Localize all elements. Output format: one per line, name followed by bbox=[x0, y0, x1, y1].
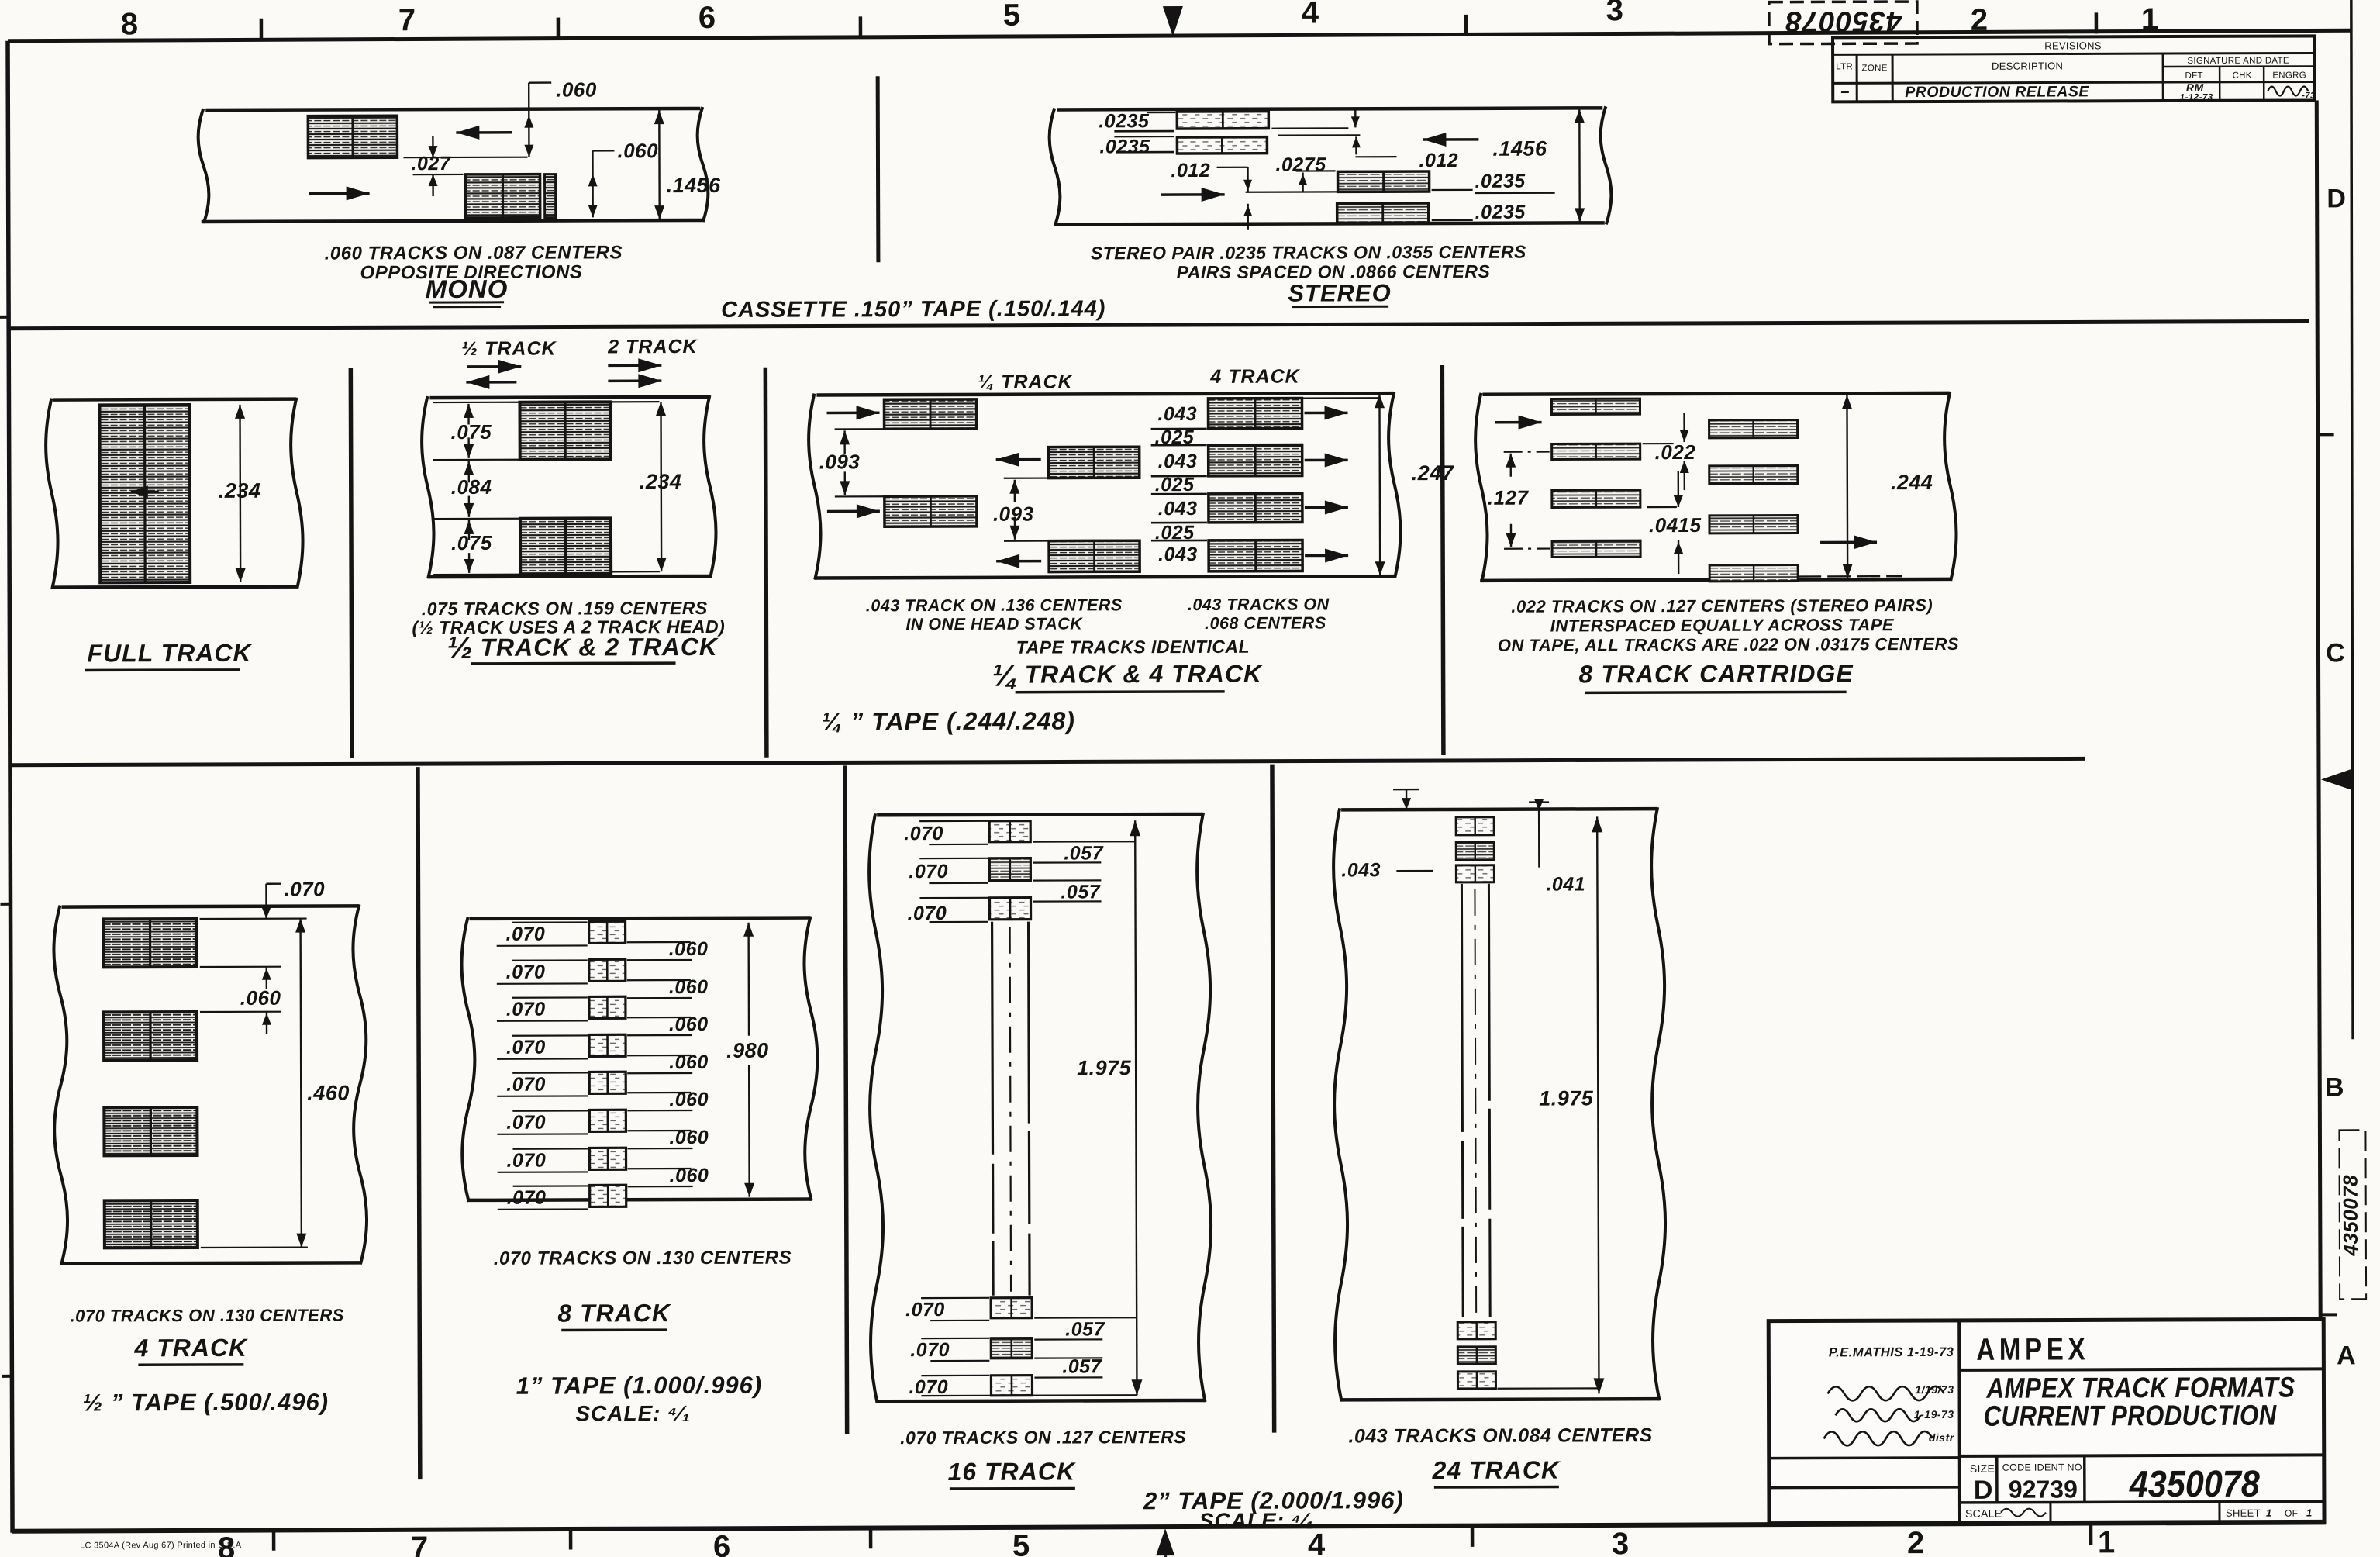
svg-text:ENGRG: ENGRG bbox=[2272, 71, 2306, 80]
twentyfour track top tracks bbox=[1456, 817, 1494, 835]
title block code ident cell bbox=[2083, 1455, 2086, 1502]
svg-text:CODE IDENT NO: CODE IDENT NO bbox=[2002, 1462, 2082, 1472]
svg-text:¼ TRACK: ¼ TRACK bbox=[978, 371, 1073, 392]
svg-text:D: D bbox=[1974, 1476, 1993, 1505]
one inch track 3 leaders bbox=[512, 996, 588, 999]
title block frame bbox=[1768, 1319, 2324, 1523]
svg-text:DESCRIPTION: DESCRIPTION bbox=[1992, 60, 2063, 71]
svg-text:.070: .070 bbox=[506, 999, 546, 1020]
svg-text:.1456: .1456 bbox=[667, 174, 722, 197]
svg-text:6: 6 bbox=[713, 1530, 730, 1557]
quarter track arrow A bbox=[827, 412, 880, 415]
svg-text:.247: .247 bbox=[1412, 461, 1455, 485]
svg-text:3: 3 bbox=[1612, 1527, 1629, 1557]
svg-text:.043 TRACKS ON: .043 TRACKS ON bbox=[1188, 595, 1330, 614]
svg-text:1/19/73: 1/19/73 bbox=[1915, 1383, 1954, 1396]
inverted drawing number 4350078 bbox=[1785, 5, 1902, 37]
svg-text:OF: OF bbox=[2285, 1508, 2298, 1519]
svg-text:6: 6 bbox=[698, 1, 716, 35]
svg-text:1” TAPE (1.000/.996): 1” TAPE (1.000/.996) bbox=[516, 1372, 763, 1400]
svg-text:½ TRACK: ½ TRACK bbox=[461, 338, 557, 360]
svg-text:2: 2 bbox=[1907, 1526, 1924, 1557]
svg-text:.060 TRACKS ON .087 CENTERS: .060 TRACKS ON .087 CENTERS bbox=[325, 242, 623, 264]
title block title bottom rule bbox=[1960, 1455, 2324, 1455]
one inch track 2 bbox=[589, 959, 626, 981]
mono dim .1456 bbox=[658, 110, 661, 219]
svg-text:.060: .060 bbox=[670, 1165, 709, 1186]
svg-text:7: 7 bbox=[411, 1531, 428, 1557]
svg-text:.070: .070 bbox=[905, 1299, 945, 1321]
svg-text:.070: .070 bbox=[506, 1150, 546, 1172]
title block left rows bbox=[1769, 1456, 1960, 1459]
stereo tape strip bbox=[1057, 108, 1602, 109]
stereo dim arrows rows gap bbox=[1354, 109, 1356, 127]
svg-text:.060: .060 bbox=[617, 139, 658, 162]
svg-text:1: 1 bbox=[2266, 1507, 2272, 1519]
mono dim .027 bbox=[413, 174, 464, 175]
revision table column lines bbox=[1856, 54, 1858, 102]
svg-text:4 TRACK: 4 TRACK bbox=[133, 1334, 249, 1362]
twentyfour track dim 1.975 bbox=[1597, 816, 1599, 1393]
sixteen track body lines bbox=[992, 922, 994, 1296]
one inch dim .980 bbox=[747, 923, 750, 1036]
svg-text:A: A bbox=[2337, 1341, 2356, 1370]
sixteen track tape strip bbox=[877, 814, 1202, 815]
svg-text:DFT: DFT bbox=[2185, 71, 2203, 81]
svg-text:.043: .043 bbox=[1341, 859, 1381, 881]
svg-text:.060: .060 bbox=[669, 938, 709, 960]
stereo row3 bottom extension bbox=[1246, 191, 1337, 193]
svg-text:C: C bbox=[2326, 638, 2345, 668]
one inch track 1 leaders bbox=[512, 921, 588, 923]
half track tape strip bbox=[429, 397, 708, 398]
svg-text:.057: .057 bbox=[1064, 842, 1103, 864]
quarter track record block C bbox=[1049, 447, 1140, 478]
svg-text:8 TRACK: 8 TRACK bbox=[557, 1299, 672, 1327]
sheet border bottom bbox=[12, 1522, 2326, 1531]
svg-text:.070 TRACKS ON .130 CENTERS: .070 TRACKS ON .130 CENTERS bbox=[70, 1305, 343, 1325]
svg-text:.060: .060 bbox=[669, 1089, 709, 1110]
svg-text:REVISIONS: REVISIONS bbox=[2044, 40, 2102, 51]
svg-text:INTERSPACED EQUALLY ACROSS TA: INTERSPACED EQUALLY ACROSS TAPE bbox=[1550, 615, 1895, 635]
svg-text:CURRENT PRODUCTION: CURRENT PRODUCTION bbox=[1984, 1400, 2278, 1432]
bottom center fold arrow bbox=[1156, 1528, 1174, 1555]
half track extension lines bbox=[433, 402, 519, 404]
quarter track arrow B bbox=[827, 510, 880, 513]
svg-text:distr: distr bbox=[1929, 1431, 1955, 1444]
svg-text:LC 3504A (Rev Aug 67) Printed: LC 3504A (Rev Aug 67) Printed in U.S.A bbox=[80, 1541, 242, 1551]
svg-text:.075: .075 bbox=[451, 420, 492, 444]
svg-text:3: 3 bbox=[1606, 0, 1623, 27]
svg-text:.070: .070 bbox=[909, 861, 948, 882]
cartridge bottom dash line bbox=[1798, 575, 1902, 578]
svg-text:.070: .070 bbox=[284, 878, 325, 901]
svg-text:.070 TRACKS ON .130 CENTERS: .070 TRACKS ON .130 CENTERS bbox=[494, 1248, 792, 1269]
svg-text:8: 8 bbox=[121, 7, 138, 41]
mono dim .060 right bbox=[592, 150, 614, 151]
cartridge right track 4 bbox=[1709, 565, 1798, 582]
cartridge dim .022 bbox=[1683, 413, 1685, 442]
title block signature 3 bbox=[1824, 1431, 1933, 1445]
svg-text:CASSETTE .150” TAPE (.150/.14: CASSETTE .150” TAPE (.150/.144) bbox=[721, 296, 1105, 323]
svg-text:STEREO PAIR .0235 TRACKS ON .0: STEREO PAIR .0235 TRACKS ON .0355 CENTER… bbox=[1091, 242, 1526, 264]
svg-text:1.975: 1.975 bbox=[1539, 1086, 1594, 1110]
four track arrows bbox=[1305, 412, 1348, 415]
half track dim .075 upper bbox=[467, 404, 469, 425]
half track arrow right bbox=[467, 365, 521, 368]
svg-text:.0235: .0235 bbox=[1099, 110, 1150, 132]
svg-text:.043 TRACK ON .136 CENTERS: .043 TRACK ON .136 CENTERS bbox=[866, 596, 1123, 615]
cartridge dim .0415 bbox=[1678, 471, 1680, 507]
one inch track 5 bbox=[589, 1072, 626, 1093]
top center fold arrow bbox=[1163, 6, 1183, 36]
band separator line cassette bbox=[9, 321, 2309, 328]
sixteen track dim 1.975 bbox=[1135, 820, 1137, 1395]
full track dim .234 bbox=[239, 405, 241, 582]
quarter track dim .093 mid bbox=[1004, 477, 1049, 478]
full track center arrow bbox=[131, 491, 159, 493]
svg-text:.060: .060 bbox=[669, 1051, 709, 1073]
svg-text:4 TRACK: 4 TRACK bbox=[1209, 366, 1300, 388]
svg-text:.043: .043 bbox=[1158, 498, 1198, 520]
svg-text:1-19-73: 1-19-73 bbox=[1914, 1408, 1954, 1421]
svg-text:.070: .070 bbox=[506, 1112, 546, 1134]
svg-text:.022 TRACKS ON .127 CENTERS (S: .022 TRACKS ON .127 CENTERS (STEREO PAIR… bbox=[1511, 596, 1933, 616]
svg-text:2: 2 bbox=[1971, 3, 1988, 37]
svg-text:.070: .070 bbox=[506, 923, 546, 945]
bottom zone ticks bbox=[272, 1531, 276, 1551]
svg-text:.0235: .0235 bbox=[1475, 202, 1526, 223]
svg-text:.027: .027 bbox=[411, 153, 450, 174]
svg-text:.1456: .1456 bbox=[1492, 137, 1547, 161]
one inch track 7 leaders bbox=[512, 1148, 588, 1150]
one inch track 6 bbox=[589, 1110, 626, 1131]
half track record block 1 bbox=[519, 402, 610, 459]
middle band divider 2 bbox=[765, 368, 767, 758]
stereo dim .012 right bbox=[1355, 156, 1396, 157]
cartridge dim .127 bbox=[1509, 454, 1511, 477]
mono track 2 sliver bbox=[545, 174, 556, 218]
svg-text:.0415: .0415 bbox=[1649, 513, 1702, 537]
right zone fold arrow bbox=[2321, 769, 2351, 789]
svg-text:.043: .043 bbox=[1158, 451, 1198, 472]
cartridge left track 2 bbox=[1552, 444, 1640, 459]
quarter track arrow D bbox=[996, 560, 1041, 563]
mono track1 bottom extension bbox=[403, 157, 527, 159]
quarter track tape strip bbox=[816, 393, 1392, 395]
svg-text:STEREO: STEREO bbox=[1288, 279, 1392, 306]
svg-text:1.975: 1.975 bbox=[1077, 1056, 1132, 1079]
one inch track 3 bbox=[589, 996, 626, 1018]
half track dim .234 bbox=[660, 402, 662, 571]
half inch track 4 bbox=[105, 1200, 198, 1248]
cartridge right track 1 bbox=[1709, 420, 1798, 438]
svg-text:.057: .057 bbox=[1065, 1318, 1105, 1340]
half track dim .084 bbox=[468, 461, 470, 482]
svg-text:½ ” TAPE (.500/.496): ½ ” TAPE (.500/.496) bbox=[82, 1388, 329, 1416]
svg-text:AMPEX: AMPEX bbox=[1976, 1332, 2089, 1366]
sixteen track top tracks bbox=[989, 821, 1030, 842]
stereo track row 1 bbox=[1177, 112, 1268, 129]
sheet inner right border bbox=[2316, 100, 2321, 1524]
svg-text:SIZE: SIZE bbox=[1970, 1462, 1995, 1475]
svg-text:1-12-73: 1-12-73 bbox=[2180, 93, 2213, 102]
svg-text:½: ½ bbox=[447, 631, 473, 665]
title block signature 2 bbox=[1836, 1409, 1921, 1421]
title block logo divider bbox=[1959, 1369, 2323, 1369]
one inch tape strip bbox=[470, 918, 809, 919]
four track record block 4 bbox=[1209, 540, 1302, 571]
svg-text:4350078: 4350078 bbox=[2129, 1464, 2260, 1506]
half track record block 2 bbox=[520, 518, 611, 574]
title block scale row rule bbox=[1960, 1501, 2324, 1502]
svg-text:.041: .041 bbox=[1546, 873, 1585, 895]
svg-text:¼ ” TAPE (.244/.248): ¼ ” TAPE (.244/.248) bbox=[822, 706, 1075, 735]
svg-text:2 TRACK: 2 TRACK bbox=[607, 336, 698, 357]
svg-text:FULL TRACK: FULL TRACK bbox=[87, 639, 253, 668]
four track record block 3 bbox=[1209, 494, 1302, 523]
mono arrow left bbox=[456, 131, 512, 134]
svg-text:1: 1 bbox=[2141, 2, 2158, 36]
half inch track 2 bbox=[104, 1012, 197, 1060]
svg-text:IN ONE HEAD STACK: IN ONE HEAD STACK bbox=[905, 614, 1083, 634]
svg-text:SHEET: SHEET bbox=[2226, 1507, 2261, 1519]
right margin vertical drawing number bbox=[2339, 1175, 2362, 1257]
svg-text:.127: .127 bbox=[1488, 486, 1530, 509]
half inch tape strip bbox=[62, 906, 358, 906]
svg-text:MONO: MONO bbox=[426, 274, 509, 303]
title block signature 1 bbox=[1827, 1386, 1944, 1400]
one inch track 2 leaders bbox=[512, 959, 588, 961]
four track label rule lines bbox=[1151, 428, 1207, 430]
twentyfour track bottom extension bbox=[1497, 1387, 1599, 1390]
svg-text:.070 TRACKS ON .127 CENTERS: .070 TRACKS ON .127 CENTERS bbox=[900, 1427, 1186, 1448]
svg-text:.084: .084 bbox=[451, 475, 492, 499]
cartridge centerline lower bbox=[1504, 547, 1550, 549]
svg-text:RM: RM bbox=[2186, 81, 2204, 94]
svg-text:TRACK & 2 TRACK: TRACK & 2 TRACK bbox=[480, 633, 719, 661]
svg-text:.980: .980 bbox=[726, 1039, 769, 1062]
svg-text:.060: .060 bbox=[669, 1127, 709, 1148]
title block sheet cell bbox=[2218, 1502, 2220, 1522]
top zone ticks bbox=[260, 19, 264, 40]
svg-text:.070: .070 bbox=[507, 1187, 547, 1209]
svg-text:.093: .093 bbox=[819, 450, 861, 473]
two track arrow right 2 bbox=[608, 379, 661, 382]
cartridge tape strip bbox=[1482, 393, 1948, 395]
twentyfour track body lines bbox=[1461, 884, 1463, 1317]
svg-text:.070: .070 bbox=[506, 961, 546, 983]
svg-text:.075 TRACKS ON .159 CENTERS: .075 TRACKS ON .159 CENTERS bbox=[422, 598, 708, 619]
svg-text:.060: .060 bbox=[669, 976, 709, 998]
svg-text:SCALE: ⁴⁄₁: SCALE: ⁴⁄₁ bbox=[575, 1401, 691, 1425]
mono dim .060 top bbox=[528, 83, 530, 157]
cartridge left track 1 bbox=[1551, 399, 1640, 414]
cartridge left track 3 bbox=[1552, 490, 1640, 507]
quarter track record block A bbox=[884, 399, 976, 429]
svg-text:.043 TRACKS ON.084 CENTERS: .043 TRACKS ON.084 CENTERS bbox=[1348, 1424, 1652, 1447]
revision table frame bbox=[1833, 36, 2314, 102]
quarter track dim .247 bbox=[1378, 394, 1381, 575]
sheet outer right edge line bbox=[2350, 0, 2354, 1039]
quarter track extension top bbox=[1302, 397, 1379, 399]
cartridge right track 2 bbox=[1709, 466, 1798, 484]
svg-text:92739: 92739 bbox=[2009, 1475, 2078, 1503]
svg-text:5: 5 bbox=[1012, 1529, 1030, 1557]
half track arrow left bbox=[466, 381, 516, 384]
svg-text:7: 7 bbox=[398, 3, 416, 37]
cartridge centerline upper bbox=[1504, 451, 1550, 452]
svg-text:PRODUCTION RELEASE: PRODUCTION RELEASE bbox=[1905, 83, 2089, 101]
title block inner vertical divider bbox=[1957, 1321, 1961, 1523]
svg-text:.460: .460 bbox=[307, 1081, 350, 1104]
dashed drawing number box bbox=[1769, 2, 1917, 44]
one inch track 4 leaders bbox=[512, 1034, 588, 1037]
mono track 2 bbox=[466, 174, 540, 218]
one inch track 6 leaders bbox=[512, 1110, 588, 1112]
cartridge arrow out bbox=[1820, 540, 1877, 544]
four track record block 1 bbox=[1208, 399, 1302, 429]
middle band divider 3 bbox=[1442, 365, 1444, 755]
svg-text:.0235: .0235 bbox=[1099, 136, 1150, 157]
revision row engineering signature bbox=[2268, 86, 2308, 95]
right border zone ticks bbox=[2318, 433, 2334, 436]
stereo track row 3 bbox=[1338, 171, 1430, 192]
svg-text:.060: .060 bbox=[669, 1013, 709, 1035]
quarter track arrow C bbox=[996, 458, 1041, 461]
half inch dim .460 bbox=[301, 919, 302, 1248]
twentyfour track tape strip bbox=[1341, 809, 1656, 810]
title block size cell bbox=[1995, 1456, 1999, 1503]
stereo arrow left bbox=[1423, 138, 1478, 141]
one inch track 8 bbox=[590, 1185, 626, 1207]
cassette band divider bbox=[876, 76, 881, 262]
left border zone ticks bbox=[0, 316, 9, 319]
svg-text:.068 CENTERS: .068 CENTERS bbox=[1205, 613, 1326, 632]
svg-text:24 TRACK: 24 TRACK bbox=[1432, 1455, 1561, 1484]
svg-text:.093: .093 bbox=[993, 502, 1034, 526]
cartridge right track 3 bbox=[1709, 516, 1798, 533]
stereo dim .1456 bbox=[1578, 109, 1581, 222]
svg-text:.060: .060 bbox=[556, 78, 597, 101]
full track record block bbox=[99, 405, 190, 582]
bottom band divider 2 bbox=[845, 765, 847, 1434]
middle band divider 1 bbox=[350, 368, 352, 758]
svg-text:B: B bbox=[2325, 1072, 2344, 1102]
svg-text:.057: .057 bbox=[1061, 881, 1100, 903]
sixteen track bottom tracks bbox=[991, 1298, 1032, 1318]
svg-text:1: 1 bbox=[2098, 1525, 2115, 1557]
svg-text:.070: .070 bbox=[910, 1339, 950, 1361]
bottom band divider 1 bbox=[418, 767, 420, 1479]
svg-text:.070: .070 bbox=[904, 823, 943, 844]
svg-text:.244: .244 bbox=[1891, 471, 1933, 494]
svg-text:4350078: 4350078 bbox=[2339, 1175, 2362, 1257]
two track arrow right 1 bbox=[608, 364, 661, 367]
twentyfour track top callout arrows bbox=[1393, 789, 1419, 791]
bottom band divider 3 bbox=[1272, 765, 1275, 1433]
svg-text:.043: .043 bbox=[1158, 544, 1198, 565]
svg-text:-73: -73 bbox=[2302, 91, 2315, 100]
mono tape strip bbox=[205, 109, 700, 110]
stereo arrow right bbox=[1161, 193, 1225, 196]
svg-text:.0275: .0275 bbox=[1275, 154, 1326, 175]
svg-text:TRACK & 4 TRACK: TRACK & 4 TRACK bbox=[1025, 660, 1264, 689]
cartridge dim .244 bbox=[1846, 395, 1848, 578]
svg-text:4: 4 bbox=[1302, 0, 1319, 30]
quarter track record block D bbox=[1049, 540, 1140, 571]
one inch track 1 bbox=[589, 921, 626, 943]
one inch track 5 leaders bbox=[512, 1072, 588, 1074]
cartridge left track 4 bbox=[1552, 540, 1640, 557]
full track tape strip bbox=[53, 397, 295, 401]
svg-text:.234: .234 bbox=[219, 479, 261, 502]
one inch track 4 bbox=[589, 1034, 626, 1056]
svg-text:.012: .012 bbox=[1419, 150, 1458, 171]
svg-text:.234: .234 bbox=[640, 470, 682, 493]
svg-text:P.E.MATHIS 1-19-73: P.E.MATHIS 1-19-73 bbox=[1829, 1345, 1954, 1360]
svg-text:.075: .075 bbox=[451, 531, 492, 554]
svg-text:.070: .070 bbox=[506, 1037, 546, 1058]
quarter track dim .093 left bbox=[835, 428, 885, 430]
svg-text:.0235: .0235 bbox=[1475, 171, 1526, 192]
quarter track record block B bbox=[885, 496, 977, 526]
svg-text:SIGNATURE AND DATE: SIGNATURE AND DATE bbox=[2187, 57, 2289, 66]
one inch track 7 bbox=[589, 1148, 626, 1169]
half inch ext lines bbox=[200, 917, 307, 920]
stereo track row 2 bbox=[1177, 137, 1267, 154]
svg-text:16 TRACK: 16 TRACK bbox=[948, 1457, 1077, 1486]
stereo row1 leader right bbox=[1271, 127, 1348, 129]
stereo row2 leader right bbox=[1278, 134, 1360, 136]
band separator line quarter inch bbox=[10, 758, 2085, 765]
sheet border left bbox=[8, 41, 12, 1533]
one inch track 8 leaders bbox=[513, 1185, 588, 1187]
four track record block 2 bbox=[1209, 445, 1302, 476]
twentyfour track bottom tracks bbox=[1457, 1322, 1495, 1339]
svg-text:ZONE: ZONE bbox=[1862, 64, 1888, 73]
stereo track row 4 bbox=[1337, 203, 1429, 223]
svg-text:4350078: 4350078 bbox=[1785, 5, 1902, 37]
svg-text:SCALE: ⁴⁄₁: SCALE: ⁴⁄₁ bbox=[1199, 1509, 1315, 1533]
svg-text:1: 1 bbox=[2306, 1507, 2313, 1518]
svg-text:CHK: CHK bbox=[2233, 71, 2252, 81]
half inch track 1 bbox=[104, 919, 197, 967]
svg-text:.012: .012 bbox=[1171, 160, 1210, 181]
cartridge arrow in bbox=[1495, 421, 1542, 424]
half track dim .075 lower bbox=[468, 520, 470, 540]
svg-text:¼: ¼ bbox=[992, 659, 1019, 693]
half inch track 3 bbox=[104, 1107, 197, 1155]
sheet border top bbox=[8, 30, 2351, 40]
svg-text:LTR: LTR bbox=[1836, 62, 1853, 71]
svg-text:TAPE TRACKS IDENTICAL: TAPE TRACKS IDENTICAL bbox=[1016, 637, 1250, 658]
svg-text:8 TRACK CARTRIDGE: 8 TRACK CARTRIDGE bbox=[1578, 659, 1854, 688]
svg-text:.070: .070 bbox=[506, 1074, 546, 1096]
svg-text:ON TAPE, ALL TRACKS ARE .022 O: ON TAPE, ALL TRACKS ARE .022 ON .03175 C… bbox=[1498, 634, 1959, 655]
svg-text:.043: .043 bbox=[1157, 403, 1197, 425]
svg-text:D: D bbox=[2327, 184, 2346, 213]
svg-text:5: 5 bbox=[1003, 0, 1020, 33]
svg-text:.060: .060 bbox=[240, 986, 281, 1010]
svg-text:SCALE: SCALE bbox=[1965, 1507, 2002, 1520]
svg-text:–: – bbox=[1840, 83, 1850, 100]
mono track 1 bbox=[308, 116, 397, 157]
mono arrow right bbox=[309, 192, 370, 195]
